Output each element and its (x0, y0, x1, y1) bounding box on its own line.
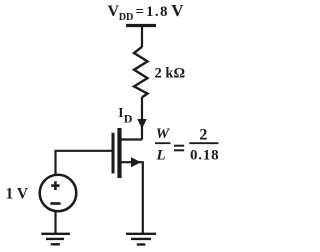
svg-text:V: V (108, 3, 120, 20)
svg-text:DD: DD (119, 12, 134, 23)
wire resistor to drain (141, 97, 143, 140)
svg-text:2 kΩ: 2 kΩ (155, 66, 186, 82)
svg-text:W: W (156, 126, 171, 142)
svg-text:1 V: 1 V (6, 186, 29, 203)
voltage source V1 (40, 175, 77, 212)
svg-text:0.18: 0.18 (190, 148, 219, 164)
wire rail to resistor (141, 26, 143, 48)
source arrow (131, 157, 141, 167)
VDD supply rail (126, 24, 156, 27)
svg-text:2: 2 (199, 126, 207, 143)
label W/L = 2/0.18 (155, 126, 219, 164)
svg-text:I: I (118, 105, 123, 120)
label ID (118, 105, 133, 125)
current arrow ID (137, 119, 146, 129)
gate wire (56, 151, 112, 175)
source wire with arrow (121, 162, 143, 233)
ground left (41, 234, 70, 245)
minus sign (50, 202, 60, 205)
svg-text:D: D (124, 111, 133, 125)
svg-text:1.8: 1.8 (146, 4, 169, 20)
plus sign (51, 181, 59, 190)
transistor M1 gate line (112, 133, 115, 174)
svg-text:V: V (171, 1, 184, 20)
transistor M1 channel line (117, 128, 121, 178)
drain wire (121, 138, 142, 140)
label VDD = 1.8 V (108, 1, 185, 23)
svg-text:=: = (136, 4, 145, 20)
resistor 2k (134, 47, 148, 98)
wire source to ground (54, 212, 56, 234)
ground right (126, 234, 156, 245)
svg-text:L: L (156, 147, 166, 163)
